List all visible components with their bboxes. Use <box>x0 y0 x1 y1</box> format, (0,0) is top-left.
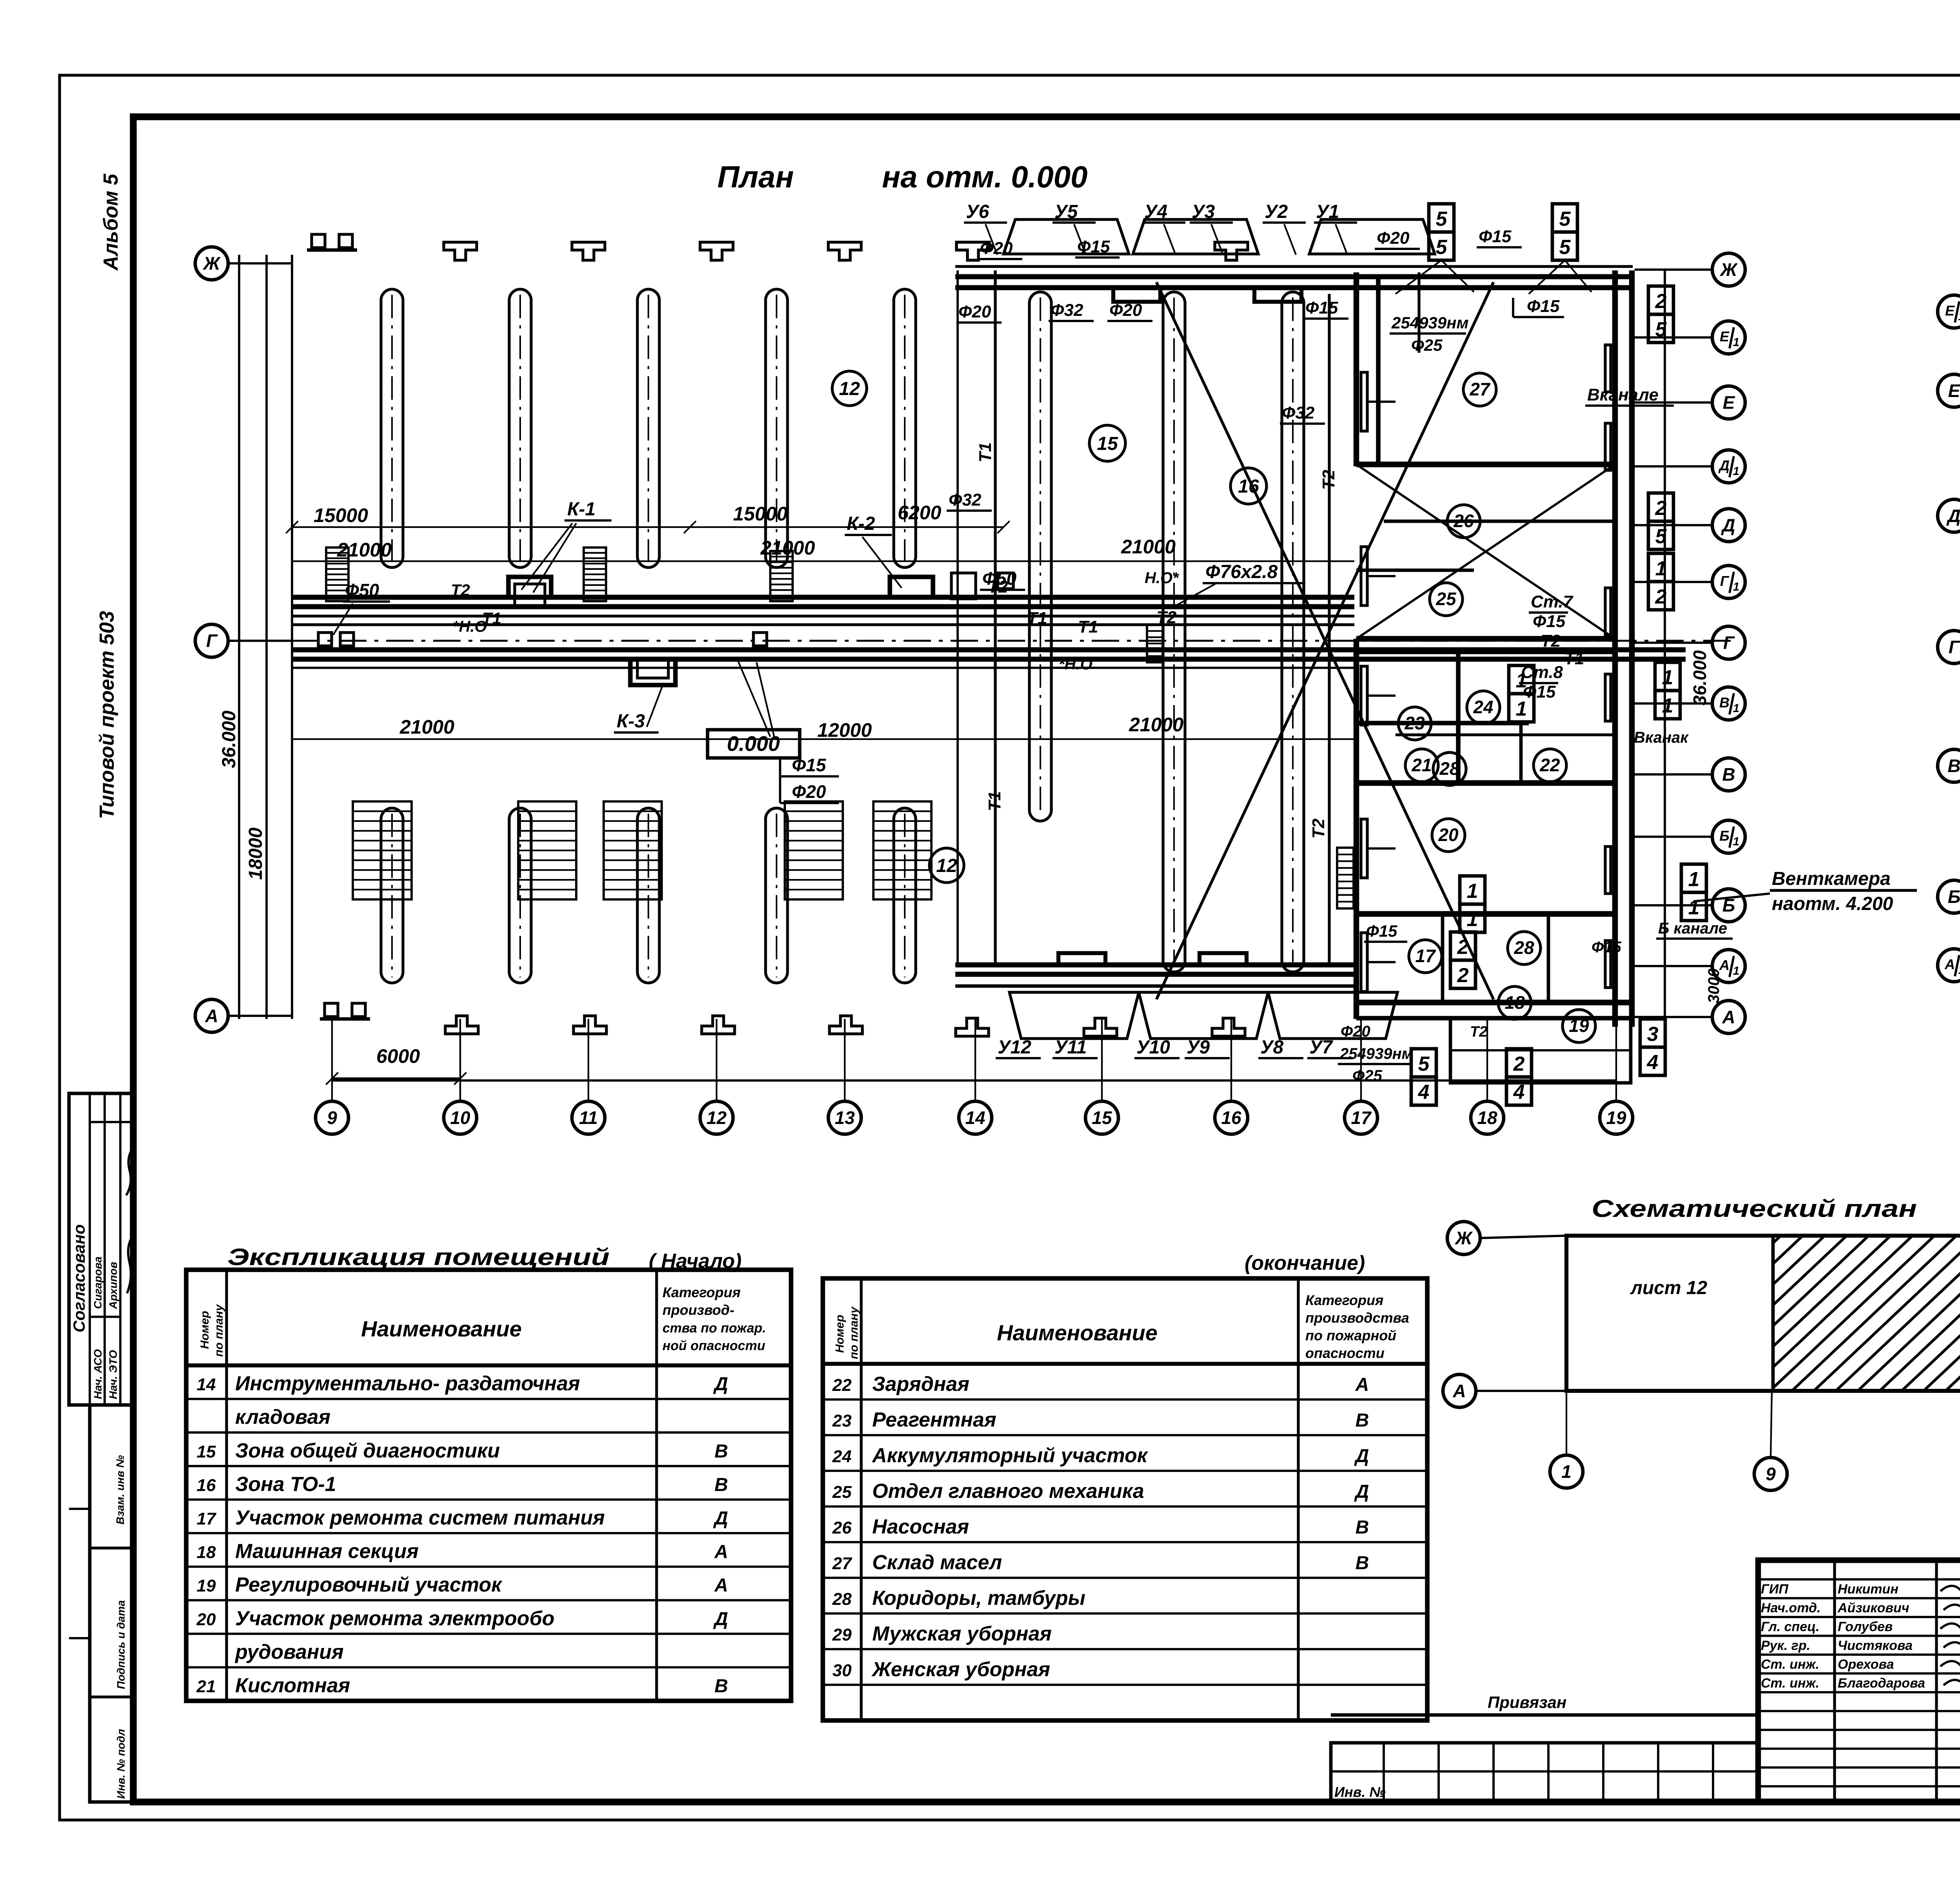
top slab trapezoids <box>1004 219 1129 254</box>
svg-text:Ф25: Ф25 <box>1411 336 1443 354</box>
svg-text:12: 12 <box>706 1108 727 1128</box>
axis leader right Б/1 <box>1635 836 1712 838</box>
svg-text:*Н.О: *Н.О <box>1058 656 1093 673</box>
svg-text:19: 19 <box>1606 1108 1626 1128</box>
svg-text:Ж: Ж <box>203 253 221 274</box>
svg-text:Ф76х2.8: Ф76х2.8 <box>1205 562 1278 582</box>
svg-text:3: 3 <box>1647 1023 1659 1046</box>
svg-text:1: 1 <box>1467 880 1478 903</box>
svg-text:рудования: рудования <box>234 1641 344 1663</box>
svg-text:Ф15: Ф15 <box>1305 298 1338 317</box>
heating main Т1 line <box>292 604 1354 609</box>
signature row Гл. спец. Голубев <box>1761 1619 1960 1634</box>
interior wall y1875 <box>1396 733 1615 736</box>
axis leader right Е <box>1635 401 1712 404</box>
wall axis line left <box>291 255 293 1019</box>
svg-text:кладовая: кладовая <box>235 1406 330 1428</box>
svg-text:У8: У8 <box>1260 1037 1284 1058</box>
svg-text:Схематический план: Схематический план <box>1592 1195 1917 1222</box>
svg-text:5: 5 <box>1436 208 1448 230</box>
axis leader bottom 18 <box>1486 1019 1488 1101</box>
svg-text:Ф15: Ф15 <box>1366 922 1397 940</box>
flag box 2/4 <box>1506 1049 1532 1105</box>
svg-text:15: 15 <box>1092 1108 1112 1128</box>
dimension line 36.000 vertical <box>238 255 240 1019</box>
radiator east 1 <box>1605 345 1611 392</box>
svg-text:Нач. АСО: Нач. АСО <box>92 1349 104 1399</box>
svg-text:Ф15: Ф15 <box>1592 939 1621 956</box>
column symbol top 12 <box>700 242 733 260</box>
column pill top 4 <box>766 289 788 567</box>
stair hall right <box>1337 848 1354 908</box>
axis circle right-Д <box>1712 509 1745 542</box>
signature row Рук. гр. Чистякова <box>1761 1638 1960 1653</box>
svg-text:14: 14 <box>965 1108 985 1128</box>
column pill hall 1 <box>1029 292 1051 821</box>
svg-text:18000: 18000 <box>245 827 266 880</box>
room circle 21 <box>1405 749 1438 782</box>
signature row Ст. инж. Орехова <box>1761 1657 1960 1672</box>
flag box 1/2 a <box>1648 553 1673 610</box>
svg-text:25: 25 <box>1436 589 1457 609</box>
explication2 row 29 <box>823 1622 1427 1649</box>
room circle 12 <box>832 371 867 406</box>
svg-text:В: В <box>1356 1517 1369 1538</box>
axis circle bottom-9 <box>316 1101 348 1134</box>
svg-text:Наименование: Наименование <box>361 1316 522 1341</box>
flag box 5/4 <box>1411 1049 1436 1105</box>
dimension line 18000 vertical <box>265 255 268 1019</box>
axis circle bottom-10 <box>444 1101 477 1134</box>
explication2 row 24 <box>823 1444 1427 1471</box>
small porch bottom right <box>1450 1018 1631 1083</box>
svg-text:А: А <box>1944 956 1955 972</box>
dimension line right 36000 <box>1664 270 1666 1027</box>
column symbol top axis 9 <box>307 234 357 250</box>
svg-text:1: 1 <box>1733 580 1740 593</box>
room circle 25 <box>1430 583 1463 616</box>
interior wall Г band b <box>1356 649 1615 654</box>
axis leader bottom 10 <box>459 1019 461 1101</box>
svg-text:Взам. инв №: Взам. инв № <box>114 1455 126 1525</box>
partition x3950 lower <box>1547 914 1550 1002</box>
bottom slab trapezoids <box>1009 992 1139 1039</box>
axis circle plan2-Г <box>1938 631 1960 663</box>
svg-text:18: 18 <box>197 1543 216 1562</box>
north wall band line 1 <box>955 265 1633 268</box>
svg-text:У11: У11 <box>1054 1037 1087 1058</box>
axis circle right-Б <box>1712 889 1745 922</box>
svg-text:Женская уборная: Женская уборная <box>871 1658 1050 1681</box>
axis line Г dashed <box>292 640 1733 642</box>
svg-text:254939нм: 254939нм <box>1391 314 1469 332</box>
svg-text:17: 17 <box>197 1509 217 1528</box>
svg-text:Т2: Т2 <box>1470 1024 1487 1040</box>
explication2 row empty <box>823 1719 1427 1722</box>
svg-text:15: 15 <box>197 1442 216 1461</box>
svg-text:Е: Е <box>1723 392 1735 413</box>
svg-text:В: В <box>1722 764 1735 785</box>
svg-text:Е: Е <box>1945 303 1955 319</box>
svg-text:Ф15: Ф15 <box>1523 682 1556 702</box>
explication2 row 22 <box>823 1373 1427 1399</box>
explication table 2 grid <box>823 1278 1427 1720</box>
svg-text:2: 2 <box>1457 936 1469 959</box>
column pill bottom d <box>766 808 788 983</box>
partition x3620 room27 <box>1417 272 1420 353</box>
room circle 23 <box>1398 707 1431 740</box>
svg-text:6000: 6000 <box>376 1045 420 1067</box>
svg-text:Инв. № подл: Инв. № подл <box>115 1729 127 1799</box>
svg-text:19: 19 <box>197 1576 216 1595</box>
schematic plan rect <box>1566 1236 1960 1391</box>
axis leader А <box>228 1015 292 1017</box>
svg-text:4: 4 <box>1418 1081 1430 1104</box>
svg-text:Зона общей диагностики: Зона общей диагностики <box>235 1439 500 1462</box>
dimension line row 21000 <box>292 560 1354 562</box>
explication1 row 16 <box>186 1473 791 1499</box>
svg-text:Ф20: Ф20 <box>980 239 1013 258</box>
svg-text:17: 17 <box>1415 946 1436 966</box>
svg-text:А: А <box>714 1542 728 1563</box>
svg-text:У7: У7 <box>1309 1037 1334 1058</box>
axis leader bottom 9 <box>331 1019 333 1101</box>
column symbol top 13 <box>828 242 861 260</box>
column pill hall 2 <box>1163 292 1185 972</box>
heating main Т2 line <box>292 595 1354 600</box>
axis leader bottom 15 <box>1101 1019 1103 1101</box>
schematic axis А <box>1476 1390 1566 1392</box>
column symbol south 2807 <box>1084 1018 1117 1036</box>
svg-text:30: 30 <box>833 1661 852 1680</box>
axis circle Ж-left <box>195 247 228 280</box>
svg-text:Д: Д <box>1354 1446 1369 1467</box>
south wall notches <box>1058 953 1105 965</box>
svg-text:Д: Д <box>1720 515 1735 535</box>
axis circle bottom-17 <box>1345 1101 1377 1134</box>
svg-text:У2: У2 <box>1265 201 1288 222</box>
svg-text:А: А <box>714 1575 728 1596</box>
explication1 row cont <box>186 1641 791 1667</box>
svg-text:Регулировочный участок: Регулировочный участок <box>235 1574 503 1596</box>
svg-text:У12: У12 <box>998 1037 1031 1058</box>
svg-text:Т1: Т1 <box>1078 617 1098 636</box>
svg-text:Ж: Ж <box>1455 1228 1473 1248</box>
interior wall В y1998 <box>1356 780 1615 786</box>
south wall band line 3 <box>955 984 1356 988</box>
svg-text:А: А <box>1719 957 1730 973</box>
axis circle plan2-Д <box>1938 499 1960 532</box>
stair lower a <box>353 801 412 899</box>
svg-text:по плану: по плану <box>212 1304 225 1357</box>
explication1 row 21 <box>186 1674 791 1701</box>
axis circle plan2-А/1 <box>1938 949 1960 982</box>
stamp column lower block <box>69 1405 133 1802</box>
stair hatch c <box>770 551 793 601</box>
dimension line 6000 <box>332 1077 460 1080</box>
svg-text:2: 2 <box>1457 964 1469 987</box>
dimension line row lower 21000 <box>292 738 1354 740</box>
svg-text:Категория: Категория <box>662 1284 740 1300</box>
axis circle plan2-Е <box>1938 374 1960 407</box>
heating main south line 2 <box>292 657 1686 662</box>
svg-text:15000: 15000 <box>314 504 368 526</box>
schematic plan hatch <box>1616 1236 1960 1391</box>
svg-text:13: 13 <box>835 1108 855 1128</box>
svg-text:Отдел главного механика: Отдел главного механика <box>872 1480 1144 1503</box>
explication1 row 14 <box>186 1372 791 1399</box>
axis circle right-Б/1 <box>1712 820 1745 853</box>
svg-text:лист 12: лист 12 <box>1630 1278 1708 1298</box>
svg-text:Сигарова: Сигарова <box>92 1256 104 1309</box>
axis circle bottom-13 <box>828 1101 861 1134</box>
channel bump К-1 <box>508 577 551 597</box>
explication2 row 26 <box>823 1515 1427 1542</box>
schematic axis 1 <box>1566 1391 1567 1455</box>
schematic axis 9 <box>1771 1391 1772 1457</box>
radiator east 2 <box>1605 423 1611 470</box>
svg-text:Е: Е <box>1720 328 1730 344</box>
axis leader bottom 16 <box>1230 1019 1232 1101</box>
svg-text:Д: Д <box>1718 457 1730 473</box>
svg-text:254939нм: 254939нм <box>1339 1045 1413 1062</box>
north wall band line 3 <box>955 285 1633 290</box>
svg-text:Никитин: Никитин <box>1838 1582 1898 1597</box>
interior wall y1845 <box>1356 721 1529 725</box>
svg-text:36.000: 36.000 <box>219 711 240 768</box>
leader Венткамера <box>1693 894 1770 901</box>
room circle 22 <box>1534 749 1566 782</box>
explication1 row 18 <box>186 1540 791 1567</box>
svg-text:Аккумуляторный участок: Аккумуляторный участок <box>871 1444 1149 1467</box>
column symbol bottom 9 <box>320 1003 370 1019</box>
svg-text:Зарядная: Зарядная <box>872 1373 969 1396</box>
svg-text:опасности: опасности <box>1305 1345 1385 1361</box>
south wall band line 1 <box>955 963 1356 968</box>
svg-text:Ф15: Ф15 <box>1533 612 1566 631</box>
svg-text:Ф32: Ф32 <box>1282 403 1315 422</box>
svg-text:Категория: Категория <box>1305 1292 1383 1308</box>
axis leader Ж <box>228 262 292 265</box>
svg-text:Д: Д <box>713 1609 728 1630</box>
flag box 2/5 b <box>1648 493 1673 549</box>
svg-text:16: 16 <box>1221 1108 1241 1128</box>
axis circle right-Г <box>1712 626 1745 659</box>
axis circle schematic-А <box>1443 1374 1476 1407</box>
column symbol bottom 12 <box>702 1016 735 1034</box>
svg-text:Д: Д <box>1946 506 1960 526</box>
demolition cross line 1 <box>1156 282 1494 999</box>
svg-text:В: В <box>715 1474 728 1495</box>
north wall band line 2 <box>955 274 1633 279</box>
svg-text:У10: У10 <box>1136 1037 1170 1058</box>
svg-text:Наименование: Наименование <box>997 1320 1158 1345</box>
axis leader bottom 12 <box>716 1019 717 1101</box>
room circle 17 <box>1409 940 1442 973</box>
south wall room block a <box>1356 1000 1632 1006</box>
svg-text:Нач.отд.: Нач.отд. <box>1761 1601 1820 1615</box>
room circle 28 <box>1508 932 1541 964</box>
radiator west 4 <box>1361 819 1367 878</box>
svg-text:Ф20: Ф20 <box>792 781 826 802</box>
svg-text:Рук. гр.: Рук. гр. <box>1761 1638 1810 1653</box>
svg-text:Б канале: Б канале <box>1658 920 1727 937</box>
axis circle right-Д/1 <box>1712 450 1745 483</box>
axis leader right В/1 <box>1635 702 1712 705</box>
column symbol bottom 11 <box>573 1016 606 1034</box>
explication2 row 28 <box>823 1587 1427 1613</box>
schematic axis Ж <box>1480 1236 1566 1238</box>
svg-text:Г: Г <box>1723 633 1735 653</box>
axis leader right Ж <box>1635 268 1712 271</box>
svg-text:В: В <box>1356 1553 1369 1574</box>
axis circle bottom-11 <box>572 1101 605 1134</box>
axis circle bottom-19 <box>1600 1101 1633 1134</box>
svg-text:21000: 21000 <box>399 716 454 738</box>
axis circle bottom-15 <box>1085 1101 1118 1134</box>
leader К-1 <box>521 523 572 590</box>
svg-text:производства: производства <box>1305 1310 1409 1326</box>
svg-text:Орехова: Орехова <box>1838 1657 1894 1672</box>
small box near Ф50 <box>951 573 976 599</box>
axis circle right-Е/1 <box>1712 321 1745 354</box>
column pill top 3 <box>637 289 659 567</box>
flag box 3/4 <box>1640 1019 1665 1075</box>
svg-text:В: В <box>1947 756 1960 776</box>
axis leader right Г/1 <box>1635 581 1712 583</box>
radiator east 3 <box>1605 588 1611 635</box>
column pill top 2 <box>509 289 531 567</box>
svg-text:Ф20: Ф20 <box>1341 1023 1370 1040</box>
svg-text:1: 1 <box>1688 868 1700 891</box>
flag box 5/5 b <box>1552 204 1577 260</box>
stair hatch a <box>326 547 348 601</box>
svg-text:11: 11 <box>579 1108 598 1128</box>
title block outer <box>1758 1560 1960 1802</box>
west wall of room block lower <box>1354 639 1359 1019</box>
svg-text:Т2: Т2 <box>451 581 470 599</box>
svg-text:12: 12 <box>936 856 957 876</box>
demolition cross line 2 <box>1156 282 1494 999</box>
explication1 row 17 <box>186 1506 791 1533</box>
axis leader bottom 14 <box>975 1019 976 1101</box>
axis circle right-А/1 <box>1712 950 1745 983</box>
twin small squares under band <box>318 633 332 646</box>
title block signature grid <box>1758 1560 1960 1802</box>
room circle 27 <box>1463 373 1496 406</box>
svg-text:23: 23 <box>1404 713 1425 733</box>
svg-text:0.000: 0.000 <box>727 732 780 756</box>
svg-text:24: 24 <box>832 1447 852 1466</box>
svg-text:1: 1 <box>1958 310 1960 323</box>
svg-text:20: 20 <box>1438 825 1459 845</box>
axis leader bottom 19 <box>1615 1019 1617 1101</box>
svg-text:2: 2 <box>1513 1053 1525 1075</box>
svg-text:Ф25: Ф25 <box>1352 1067 1382 1084</box>
svg-text:17: 17 <box>1351 1108 1372 1128</box>
explication1 row 19 <box>186 1574 791 1600</box>
svg-text:Чистякова: Чистякова <box>1838 1638 1913 1653</box>
svg-text:Ф32: Ф32 <box>949 490 982 509</box>
stair lower c <box>604 801 662 899</box>
svg-text:1: 1 <box>1733 336 1740 349</box>
flag box 1/1 b <box>1655 662 1680 719</box>
svg-text:Т2: Т2 <box>1309 818 1328 839</box>
svg-text:Участок ремонта систем питания: Участок ремонта систем питания <box>235 1506 605 1529</box>
axis circle right-Ж <box>1712 253 1745 286</box>
svg-text:Ф20: Ф20 <box>1109 301 1142 320</box>
flag box 1/1 c <box>1681 864 1706 921</box>
svg-text:Д: Д <box>713 1508 728 1529</box>
leader К-2 <box>862 537 902 588</box>
south wall room block b <box>1356 1016 1632 1021</box>
small square mid hall <box>998 573 1013 589</box>
leader flag 5/5 a <box>1396 260 1441 294</box>
channel bump К-2 <box>890 577 933 597</box>
svg-text:1: 1 <box>1733 465 1740 478</box>
interior wall y1455 <box>1356 569 1474 572</box>
svg-text:22: 22 <box>832 1376 852 1395</box>
axis circle bottom-16 <box>1215 1101 1248 1134</box>
axis circle schematic-1 <box>1550 1455 1583 1488</box>
svg-text:27: 27 <box>832 1554 853 1573</box>
svg-text:21: 21 <box>1411 755 1432 775</box>
svg-text:Ст. инж.: Ст. инж. <box>1761 1676 1819 1691</box>
svg-text:(окончание): (окончание) <box>1245 1252 1365 1274</box>
svg-text:Айзикович: Айзикович <box>1837 1601 1909 1615</box>
svg-text:29: 29 <box>832 1625 852 1644</box>
axis circle plan2-В <box>1938 749 1960 782</box>
svg-text:Е: Е <box>1948 381 1960 401</box>
column pill bottom c <box>637 808 659 983</box>
svg-text:1: 1 <box>1958 964 1960 977</box>
column symbol top 16 <box>1215 242 1248 260</box>
svg-text:Г: Г <box>206 631 218 651</box>
interior wall y1330 <box>1384 520 1615 523</box>
svg-text:Г: Г <box>1949 637 1960 657</box>
axis leader right Г <box>1635 642 1712 644</box>
axis leader right В <box>1635 773 1712 776</box>
svg-text:5: 5 <box>1436 236 1448 259</box>
svg-text:18: 18 <box>1504 992 1525 1013</box>
svg-text:Реагентная: Реагентная <box>872 1409 996 1431</box>
svg-text:16: 16 <box>197 1476 216 1495</box>
axis circle plan2-Е/1 <box>1938 295 1960 328</box>
svg-text:5: 5 <box>1418 1053 1430 1075</box>
heating main south line 3 <box>292 667 1354 669</box>
interior wall y1185 <box>1356 462 1615 468</box>
svg-text:Г: Г <box>1720 573 1730 589</box>
svg-text:12000: 12000 <box>817 719 872 741</box>
radiator west 3 <box>1361 666 1367 725</box>
svg-text:28: 28 <box>1439 758 1460 779</box>
stair lower d <box>785 801 843 899</box>
svg-text:Экспликация помещений: Экспликация помещений <box>227 1244 610 1270</box>
svg-text:Мужская уборная: Мужская уборная <box>872 1622 1052 1645</box>
svg-text:18: 18 <box>1477 1108 1497 1128</box>
svg-text:21000: 21000 <box>760 537 815 559</box>
axis leader bottom 11 <box>588 1019 589 1101</box>
column pill bottom a <box>381 808 403 983</box>
level mark 0.000 <box>708 730 800 758</box>
svg-text:6200: 6200 <box>898 502 941 524</box>
column symbol south 2480 <box>956 1018 989 1036</box>
svg-text:Нач. ЭТО: Нач. ЭТО <box>107 1350 119 1399</box>
heating main return line <box>292 615 1354 617</box>
column symbol top 15 <box>956 242 989 260</box>
heating main south line 1 <box>292 647 1686 653</box>
room circle 19 <box>1563 1010 1595 1042</box>
